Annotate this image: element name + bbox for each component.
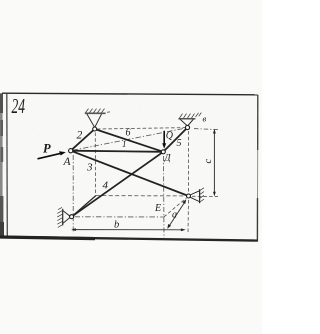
svg-text:2: 2 bbox=[77, 130, 83, 142]
svg-text:Е: Е bbox=[154, 203, 161, 214]
svg-text:P: P bbox=[43, 142, 51, 156]
svg-text:6: 6 bbox=[126, 128, 131, 139]
svg-text:1: 1 bbox=[122, 139, 127, 149]
svg-text:a: a bbox=[172, 210, 177, 221]
svg-text:b: b bbox=[114, 220, 119, 231]
svg-text:c: c bbox=[203, 159, 214, 164]
svg-text:А: А bbox=[63, 156, 72, 168]
svg-text:3: 3 bbox=[86, 162, 93, 174]
svg-text:5: 5 bbox=[177, 138, 182, 149]
svg-text:в: в bbox=[203, 114, 207, 124]
svg-text:Q: Q bbox=[166, 131, 174, 142]
svg-text:24: 24 bbox=[12, 94, 26, 118]
svg-text:Д: Д bbox=[164, 154, 172, 164]
svg-text:4: 4 bbox=[103, 180, 109, 192]
